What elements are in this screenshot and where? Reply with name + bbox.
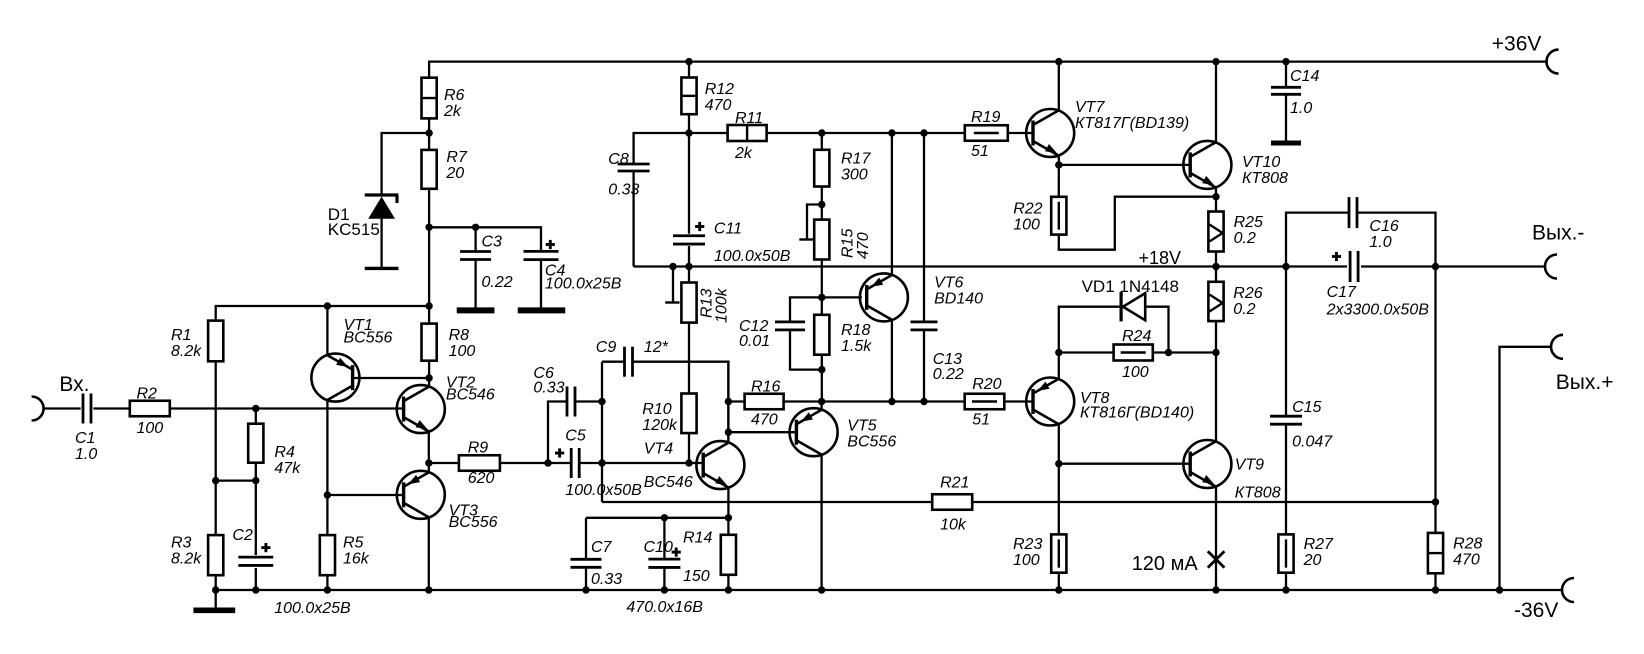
transistor VT3 xyxy=(397,471,445,519)
junction C5 vertical xyxy=(598,459,605,466)
wire R5 top lead xyxy=(326,495,328,535)
junction rail R25 R26 xyxy=(1212,263,1219,270)
wire R24 wire xyxy=(1059,351,1114,353)
svg-text:0.33: 0.33 xyxy=(591,571,622,588)
svg-text:VT7: VT7 xyxy=(1075,99,1105,116)
resistor R25 xyxy=(1208,212,1223,252)
junction R11 node xyxy=(685,129,692,136)
polarity plus C11 xyxy=(695,225,704,228)
wire VT5 collector down xyxy=(820,455,822,590)
svg-text:C8: C8 xyxy=(608,151,629,168)
junction VT1 base VT2 collector xyxy=(425,374,432,381)
label R7 xyxy=(445,149,468,182)
junction R24 VT9 collector xyxy=(1212,349,1219,356)
polarity plus C5 xyxy=(555,452,564,455)
wire VT3 emitter up xyxy=(428,463,430,472)
svg-text:8.2k: 8.2k xyxy=(171,343,202,360)
junction rail output xyxy=(1496,586,1503,593)
svg-text:R9: R9 xyxy=(468,439,489,456)
svg-text:0.047: 0.047 xyxy=(1292,434,1333,451)
svg-text:100: 100 xyxy=(1122,364,1149,381)
wire D1 anode to ground bar xyxy=(380,219,382,269)
input terminal xyxy=(32,397,44,421)
resistor R19 xyxy=(965,125,1008,141)
junction rail R14 xyxy=(725,586,732,593)
svg-text:BD140: BD140 xyxy=(934,290,983,307)
wire C11 top lead xyxy=(688,133,690,234)
svg-text:R3: R3 xyxy=(171,535,192,552)
zener diode D1 xyxy=(365,195,399,219)
wire VT7 to VT10 base xyxy=(1059,164,1190,166)
label R4 xyxy=(274,444,301,477)
junction rail R5 xyxy=(324,586,331,593)
wire VT10 collector up xyxy=(1215,62,1217,143)
svg-text:R14: R14 xyxy=(683,530,712,547)
wire C3 top lead xyxy=(474,227,476,250)
svg-text:100.0x25В: 100.0x25В xyxy=(545,276,622,293)
junction C13 bottom wire xyxy=(920,398,927,405)
wire R18 bottom lead xyxy=(821,355,823,402)
transistor VT4 xyxy=(696,441,744,489)
label R25 xyxy=(1234,214,1263,247)
svg-text:1.0: 1.0 xyxy=(1369,234,1391,251)
terminal -36V xyxy=(1562,578,1574,602)
svg-text:100k: 100k xyxy=(714,287,731,323)
wire VT1 collector down to VT3 base node xyxy=(326,400,328,495)
svg-text:R18: R18 xyxy=(841,322,870,339)
svg-text:R2: R2 xyxy=(137,386,158,403)
wire R25 top lead xyxy=(1215,197,1217,212)
wire R13 top lead xyxy=(688,267,690,283)
label R18 xyxy=(841,322,872,355)
wire R26 bottom lead xyxy=(1215,321,1217,352)
svg-text:16k: 16k xyxy=(343,551,370,568)
resistor R24 xyxy=(1114,345,1153,361)
label C3 xyxy=(482,234,513,292)
wire R6 to R7 with D1 branch xyxy=(428,118,430,149)
svg-text:470: 470 xyxy=(751,412,778,429)
svg-text:R1: R1 xyxy=(171,327,191,344)
svg-text:R21: R21 xyxy=(940,474,969,491)
junction VT8 collector R23 xyxy=(1055,460,1062,467)
svg-text:2x3300.0x50В: 2x3300.0x50В xyxy=(1326,301,1430,318)
resistor R2 xyxy=(130,401,170,417)
wire VT10 emitter down xyxy=(1215,187,1217,196)
wire R10 bottom to VT4 base wire xyxy=(688,433,690,463)
wire C8 bottom to +18V rail xyxy=(632,171,634,266)
wire R3 bottom lead xyxy=(215,575,217,590)
wire VT6 emitter up xyxy=(891,133,893,276)
wire VT8 to VT9 base xyxy=(1059,463,1190,465)
junction rail VT9 xyxy=(1212,586,1219,593)
junction bias R4 C2 xyxy=(252,477,259,484)
junction rail R28 xyxy=(1432,586,1439,593)
junction top rail VT7 collector xyxy=(1055,58,1062,65)
svg-text:0.22: 0.22 xyxy=(933,366,964,383)
svg-text:100.0x50В: 100.0x50В xyxy=(565,482,642,499)
wire R12 top lead xyxy=(688,62,690,78)
capacitor C14 xyxy=(1271,87,1301,94)
wire +18V mid rail xyxy=(634,265,1347,267)
svg-text:R15: R15 xyxy=(840,229,857,258)
capacitor C13 xyxy=(911,322,938,330)
label R11 xyxy=(734,110,763,162)
wire C15 top lead xyxy=(1285,267,1287,417)
capacitor C11 xyxy=(673,236,705,244)
resistor R5 xyxy=(320,535,335,575)
label C4 xyxy=(545,263,622,293)
wire C4 bottom lead xyxy=(540,259,542,308)
svg-text:620: 620 xyxy=(468,470,495,487)
junction rail R13 tap xyxy=(669,263,676,270)
resistor R13 xyxy=(681,283,696,323)
junction R1 wire R8 xyxy=(425,302,432,309)
label C11 xyxy=(714,221,791,266)
label C13 xyxy=(933,351,964,383)
wire R15 bottom to VT6 base node xyxy=(821,260,823,298)
svg-text:C10: C10 xyxy=(644,539,673,556)
svg-text:R7: R7 xyxy=(446,149,468,166)
label R23 xyxy=(1013,536,1042,569)
capacitor C17 xyxy=(1350,251,1358,282)
wire C9 C5 C6 vertical xyxy=(601,362,603,502)
junction R16 VT4 collector xyxy=(725,398,732,405)
wire R27 bottom lead xyxy=(1285,573,1287,590)
svg-text:C9: C9 xyxy=(596,339,617,356)
wire C13 bottom lead xyxy=(923,330,925,402)
svg-text:0.2: 0.2 xyxy=(1233,301,1255,318)
svg-text:C16: C16 xyxy=(1369,218,1398,235)
wire +36V top rail xyxy=(429,62,1546,78)
junction feedback R28 xyxy=(1432,498,1439,505)
wire VT1 emitter up xyxy=(326,306,328,355)
wire R15 tap bar xyxy=(799,238,814,240)
wire C8 branch xyxy=(634,133,689,164)
svg-text:-36V: -36V xyxy=(1514,599,1558,622)
svg-text:C3: C3 xyxy=(482,234,503,251)
measurement point X 120mA xyxy=(1208,551,1225,567)
wire C9 right to VT4 collector xyxy=(633,362,729,443)
resistor R10 xyxy=(681,394,696,434)
junction VT5 base VT4 xyxy=(725,429,732,436)
label R20 xyxy=(972,376,1001,429)
wire R13 tap xyxy=(672,267,674,303)
capacitor C12 xyxy=(775,322,805,330)
wire C14 bottom lead xyxy=(1285,94,1287,143)
svg-text:1.0: 1.0 xyxy=(75,446,97,463)
wire R13 bottom to R10 xyxy=(688,323,690,394)
svg-text:VT6: VT6 xyxy=(934,274,963,291)
resistor R11 xyxy=(728,125,767,141)
svg-text:KC515: KC515 xyxy=(328,220,380,239)
wire C12 top bracket xyxy=(790,297,822,322)
resistor R12 xyxy=(681,78,696,115)
label VT8 xyxy=(1080,390,1194,422)
wire R22 top lead xyxy=(1058,165,1060,197)
junction R16 VT5 emitter xyxy=(818,398,825,405)
junction VT6 collector wire xyxy=(888,398,895,405)
junction rail ground xyxy=(212,586,219,593)
label C8 xyxy=(608,151,639,199)
wire to C3 and C4 xyxy=(429,227,541,250)
junction input R4 xyxy=(252,405,259,412)
junction VD1 R24 right xyxy=(1165,349,1172,356)
label C6 xyxy=(533,365,564,396)
svg-text:R17: R17 xyxy=(841,151,871,168)
svg-text:R27: R27 xyxy=(1304,536,1334,553)
label R3 xyxy=(171,535,202,568)
svg-text:КТ808: КТ808 xyxy=(1235,484,1281,501)
svg-text:Вых.+: Вых.+ xyxy=(1556,371,1614,394)
label R2 xyxy=(137,386,164,438)
label R24 xyxy=(1122,328,1151,381)
wire C16 loop xyxy=(1286,213,1349,267)
junction R14 node xyxy=(725,514,732,521)
label R1 xyxy=(171,327,202,360)
junction top rail VT10 collector xyxy=(1212,58,1219,65)
wire output+ line xyxy=(1500,347,1552,590)
transistor VT2 xyxy=(397,385,445,433)
ground bar main xyxy=(193,607,235,613)
wire R18 top lead xyxy=(821,297,823,314)
svg-text:VT4: VT4 xyxy=(644,440,673,457)
junction rail C7 xyxy=(582,586,589,593)
svg-text:R28: R28 xyxy=(1453,536,1482,553)
label VT7 xyxy=(1075,99,1189,132)
svg-text:47k: 47k xyxy=(274,460,301,477)
transistor VT10 xyxy=(1183,141,1231,189)
svg-text:10k: 10k xyxy=(940,517,967,534)
svg-text:2k: 2k xyxy=(734,145,753,162)
resistor R9 xyxy=(459,455,500,471)
wire R4 top lead xyxy=(255,409,257,424)
label C5 xyxy=(565,427,642,499)
resistor R26 xyxy=(1208,282,1223,321)
wire ground stub xyxy=(215,590,217,608)
wire R11 to R19 xyxy=(767,132,965,134)
wire C15 to R27 xyxy=(1285,424,1287,534)
label C17 xyxy=(1326,284,1430,318)
svg-text:20: 20 xyxy=(1303,552,1322,569)
svg-text:R16: R16 xyxy=(751,379,780,396)
label VT9 xyxy=(1235,456,1281,501)
wire C7 top lead xyxy=(585,518,587,559)
svg-text:0.33: 0.33 xyxy=(608,182,639,199)
wire C13 top lead xyxy=(923,133,925,322)
label R9 xyxy=(468,439,495,487)
resistor R20 xyxy=(965,394,1005,410)
wire VT9 collector up xyxy=(1215,353,1217,442)
svg-text:100.0x25В: 100.0x25В xyxy=(274,600,351,617)
svg-text:VT5: VT5 xyxy=(847,417,876,434)
wire R16 wire xyxy=(728,400,744,402)
wire C14 top lead xyxy=(1285,62,1287,87)
svg-text:+18V: +18V xyxy=(1139,248,1182,268)
resistor R28 xyxy=(1428,533,1443,573)
capacitor C9 xyxy=(625,347,633,377)
wire VT8 emitter up xyxy=(1058,353,1060,380)
polarity plus C17 xyxy=(1332,255,1341,258)
svg-text:VT10: VT10 xyxy=(1242,154,1280,171)
label C7 xyxy=(591,539,622,588)
wire VT3 collector down xyxy=(428,517,430,590)
svg-text:R26: R26 xyxy=(1233,285,1262,302)
wire VT3 base xyxy=(327,494,403,496)
resistor R22 xyxy=(1051,197,1066,235)
transistor VT7 xyxy=(1026,109,1074,157)
junction R18 C12 bottom xyxy=(818,366,825,373)
wire R1 to R3 xyxy=(215,361,217,535)
svg-text:12*: 12* xyxy=(644,339,669,356)
svg-text:C5: C5 xyxy=(565,427,586,444)
polarity plus C10 xyxy=(672,551,681,554)
svg-text:Вых.-: Вых.- xyxy=(1532,221,1584,244)
svg-text:300: 300 xyxy=(841,167,868,184)
svg-text:КТ817Г(BD139): КТ817Г(BD139) xyxy=(1075,115,1189,132)
wire R28 bottom lead xyxy=(1434,573,1436,590)
wire VT8 collector down xyxy=(1058,424,1060,464)
svg-text:R12: R12 xyxy=(705,81,734,98)
resistor R21 xyxy=(932,494,972,510)
resistor R17 xyxy=(814,150,829,187)
svg-text:0.2: 0.2 xyxy=(1234,230,1256,247)
terminal Vyh- xyxy=(1545,255,1557,279)
junction top rail C14 xyxy=(1282,58,1289,65)
resistor R4 xyxy=(248,424,263,463)
svg-text:BC546: BC546 xyxy=(644,474,693,491)
wire R19 to VT7 base xyxy=(1008,132,1033,134)
svg-text:120k: 120k xyxy=(642,417,678,434)
resistor R16 xyxy=(745,394,784,410)
wire +18V rail right of C17 xyxy=(1361,265,1545,267)
label R15 470 xyxy=(840,229,873,259)
svg-text:R5: R5 xyxy=(343,535,364,552)
wire C7 bottom lead xyxy=(585,568,587,590)
svg-text:КТ808: КТ808 xyxy=(1242,170,1288,187)
svg-text:8.2k: 8.2k xyxy=(171,551,202,568)
label VT1 xyxy=(344,317,393,346)
wire R16 to R20 xyxy=(784,400,965,402)
svg-text:VD1 1N4148: VD1 1N4148 xyxy=(1082,277,1179,296)
wire bias node link xyxy=(216,479,256,481)
label C1 xyxy=(75,430,97,463)
transistor VT6 xyxy=(860,273,908,321)
label D1 xyxy=(328,205,380,239)
junction rail C17 right xyxy=(1432,263,1439,270)
capacitor C8 xyxy=(618,164,650,171)
svg-text:C14: C14 xyxy=(1290,68,1319,85)
svg-text:470: 470 xyxy=(705,97,732,114)
wire C9 left xyxy=(602,361,624,363)
transistor VT8 xyxy=(1026,378,1074,426)
svg-text:R4: R4 xyxy=(274,444,295,461)
svg-text:R24: R24 xyxy=(1122,328,1151,345)
junction R17 top xyxy=(818,129,825,136)
label R26 xyxy=(1233,285,1262,318)
label R5 xyxy=(343,535,370,568)
svg-text:R11: R11 xyxy=(735,110,763,127)
svg-text:R10: R10 xyxy=(642,401,671,418)
wire VT4 emitter down to R14 node xyxy=(727,486,729,518)
wire R4 to C2 xyxy=(255,463,257,555)
svg-text:1.5k: 1.5k xyxy=(841,338,872,355)
svg-text:R19: R19 xyxy=(971,109,1000,126)
wire VT5 base xyxy=(728,431,796,433)
svg-text:C2: C2 xyxy=(232,527,253,544)
wire VT6 collector down xyxy=(891,320,893,402)
wire R23 bottom lead xyxy=(1058,573,1060,590)
capacitor C1 xyxy=(83,394,91,424)
polarity plus C2 xyxy=(261,546,270,549)
label C12 xyxy=(739,318,770,350)
capacitor C7 xyxy=(571,559,602,567)
resistor R23 xyxy=(1051,534,1066,572)
svg-text:51: 51 xyxy=(971,143,989,160)
label R16 xyxy=(751,379,780,429)
wire VT7 emitter down xyxy=(1058,155,1060,165)
svg-text:C11: C11 xyxy=(714,221,742,238)
svg-text:100: 100 xyxy=(449,343,476,360)
wire R14 top lead xyxy=(727,518,729,535)
wire R5 bottom lead xyxy=(326,575,328,590)
wire VT1 base to VT2 collector xyxy=(353,377,430,379)
wire C10 bottom lead xyxy=(663,568,665,590)
junction C6 vertical xyxy=(598,398,605,405)
svg-text:120 мА: 120 мА xyxy=(1132,553,1199,575)
svg-text:100: 100 xyxy=(137,420,164,437)
label R12 xyxy=(705,81,734,114)
junction C3 top xyxy=(472,224,479,231)
label C9 12* xyxy=(596,339,669,356)
capacitor C15 xyxy=(1270,416,1302,424)
junction rail VT3 xyxy=(425,586,432,593)
svg-text:BC556: BC556 xyxy=(449,514,498,531)
svg-text:0.01: 0.01 xyxy=(739,333,770,350)
wire R8 to VT2 collector xyxy=(428,361,430,387)
wire C6 to vertical xyxy=(575,400,602,402)
wire -36V bottom rail xyxy=(216,589,1562,591)
wire input to C1 xyxy=(44,407,81,409)
svg-text:R8: R8 xyxy=(449,327,470,344)
resistor R6 xyxy=(422,78,437,119)
resistor R15 xyxy=(814,220,829,260)
svg-text:VT9: VT9 xyxy=(1235,456,1264,473)
junction rail C15 C16 xyxy=(1282,263,1289,270)
junction rail R13 C11 xyxy=(685,263,692,270)
svg-text:C15: C15 xyxy=(1292,399,1321,416)
junction VD1 R24 left xyxy=(1055,349,1062,356)
svg-text:0.33: 0.33 xyxy=(533,379,564,396)
svg-text:20: 20 xyxy=(445,165,464,182)
wire C2 bottom lead xyxy=(255,568,257,590)
label R6 xyxy=(443,87,465,120)
svg-text:C1: C1 xyxy=(75,430,95,447)
svg-text:C7: C7 xyxy=(591,539,613,556)
wire D1 branch xyxy=(382,133,430,195)
label R10 xyxy=(642,401,678,434)
wire C5 to VT4 base node xyxy=(580,462,705,464)
label R27 xyxy=(1303,536,1334,569)
wire VT2 emitter to R9 node xyxy=(428,432,430,464)
svg-text:0.22: 0.22 xyxy=(482,274,513,291)
wire R14 bottom lead xyxy=(727,575,729,590)
wire VT7 collector up xyxy=(1058,62,1060,112)
wire R17 to R15 xyxy=(821,187,823,220)
junction bias R1 R3 xyxy=(212,477,219,484)
label R28 xyxy=(1453,536,1482,569)
junction VT1 collector VT3 base xyxy=(324,491,331,498)
junction R17 R15 xyxy=(818,201,825,208)
